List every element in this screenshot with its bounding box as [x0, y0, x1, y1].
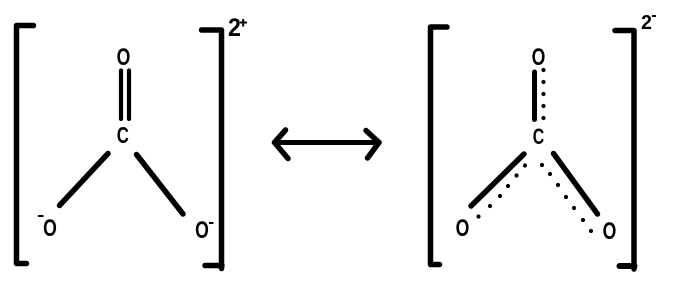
- svg-text:O: O: [195, 216, 209, 244]
- svg-text:O: O: [603, 217, 617, 245]
- svg-text:2: 2: [228, 14, 241, 42]
- svg-text:C: C: [117, 124, 129, 149]
- svg-text:C: C: [533, 126, 545, 150]
- svg-text:O: O: [456, 214, 470, 242]
- svg-text:O: O: [117, 43, 131, 71]
- svg-text:2: 2: [641, 12, 652, 35]
- svg-text:O: O: [532, 43, 546, 71]
- svg-text:O: O: [43, 214, 57, 242]
